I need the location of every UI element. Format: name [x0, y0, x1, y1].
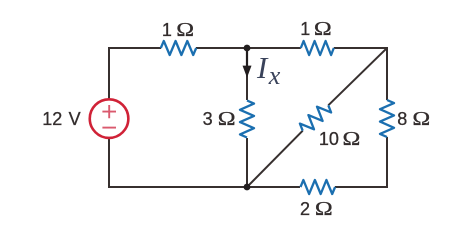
current arrow Ix shaft: [246, 50, 248, 67]
wire bottom-right corner: 2-ohm to 8-ohm bottom: [335, 137, 387, 187]
wire diagonal lower segment: [247, 131, 303, 187]
svg-text:1: 1: [300, 19, 310, 39]
svg-text:Ω: Ω: [218, 107, 236, 130]
wire middle branch top segment: [246, 48, 248, 100]
svg-text:Ω: Ω: [343, 127, 361, 150]
voltage source plus sign: [102, 105, 116, 118]
svg-text:3: 3: [203, 109, 213, 129]
svg-text:1: 1: [162, 20, 172, 40]
wire top middle segment (R1 to R2 through node A): [196, 47, 301, 49]
svg-text:Ω: Ω: [314, 17, 332, 40]
wire left branch: top wire + left side + bottom-left (L-shape through both left corners, passes behind source): [109, 48, 300, 187]
svg-text:Ω: Ω: [412, 107, 430, 130]
resistor 1-ohm top-right: [301, 41, 334, 55]
current arrow Ix head: [243, 66, 252, 78]
resistor 8-ohm right branch: [380, 100, 394, 137]
svg-text:x: x: [268, 61, 281, 90]
svg-text:2: 2: [300, 199, 310, 219]
wire top-right corner: R2 to 8-ohm top: [334, 48, 387, 100]
voltage source minus sign: [102, 127, 116, 129]
svg-text:12: 12: [42, 109, 62, 129]
wire middle branch bottom segment: [246, 138, 248, 187]
resistor 2-ohm bottom: [301, 180, 336, 194]
svg-text:10: 10: [319, 129, 339, 149]
resistor 1-ohm top-left: [161, 41, 196, 55]
svg-text:V: V: [69, 109, 81, 129]
node A top junction dot: [244, 45, 251, 52]
node B bottom junction dot: [244, 184, 251, 191]
resistor 3-ohm middle branch: [240, 101, 254, 138]
wire diagonal upper segment: [328, 48, 387, 105]
svg-text:8: 8: [397, 109, 407, 129]
voltage source V1 12V circle: [90, 99, 129, 138]
svg-text:Ω: Ω: [176, 18, 194, 41]
resistor 10-ohm diagonal branch: [300, 105, 331, 130]
svg-text:I: I: [256, 50, 269, 85]
svg-text:Ω: Ω: [315, 197, 333, 220]
